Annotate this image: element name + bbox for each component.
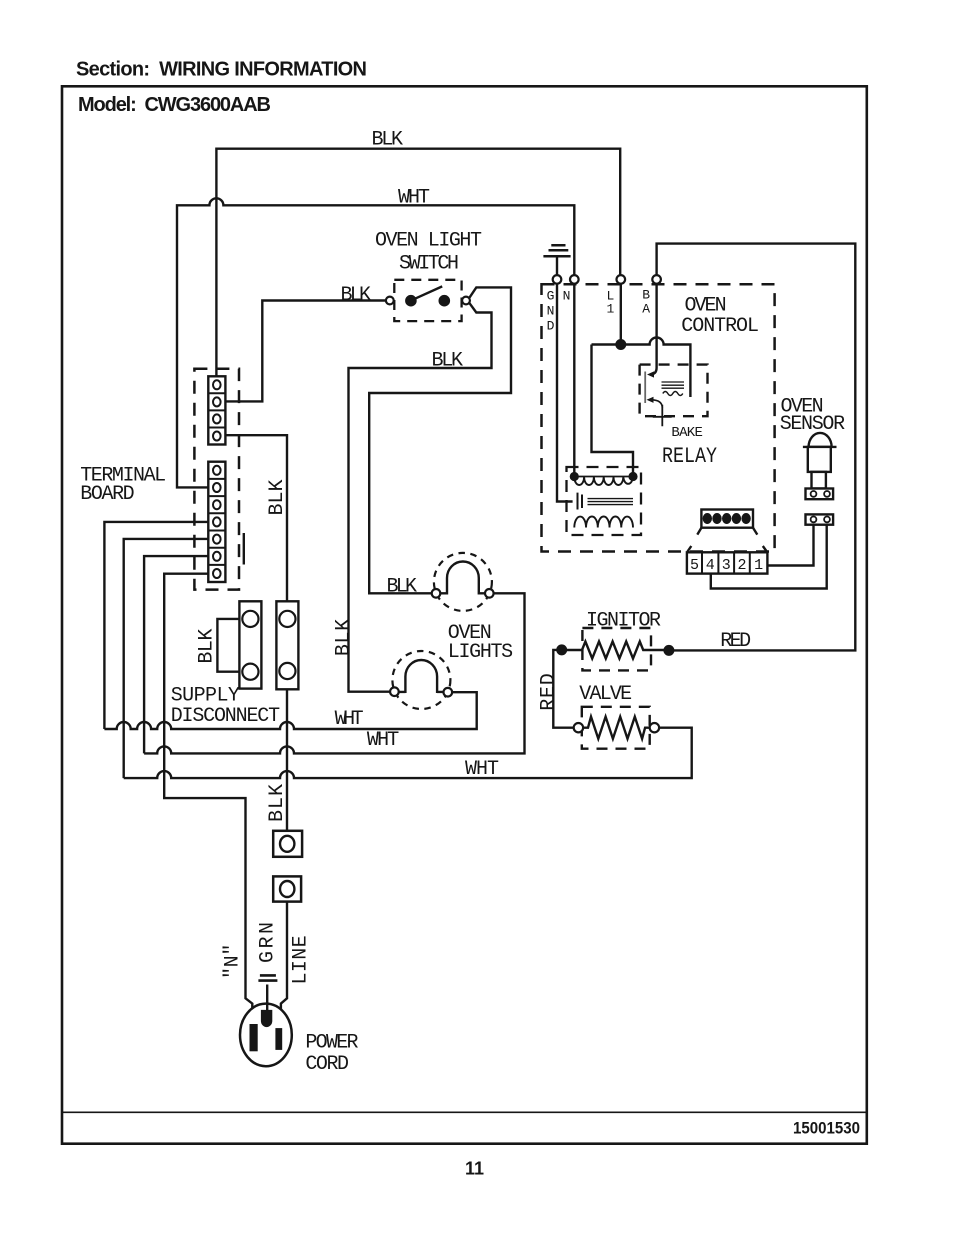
svg-text:2: 2 — [738, 557, 747, 574]
bake relay cross — [653, 405, 672, 426]
svg-text:VALVE: VALVE — [579, 683, 632, 706]
transformer primary line — [574, 476, 633, 478]
svg-text:BLK: BLK — [372, 129, 404, 152]
oven sensor body — [808, 447, 831, 472]
terminal board lower circles — [213, 466, 221, 475]
wire BLK top run to L1 — [216, 149, 620, 377]
bake relay dashed box — [640, 365, 708, 417]
svg-text:BLK: BLK — [387, 576, 418, 599]
terminal strip ticks — [688, 546, 767, 552]
wire WHT 2 run to oven light 1 — [144, 593, 524, 753]
supply disconnect left block — [239, 601, 261, 688]
transformer dashed box — [567, 467, 642, 535]
wire supply disconnect to quick connector — [286, 679, 288, 836]
terminal board dashed box — [194, 369, 239, 590]
GND symbol — [543, 245, 570, 256]
transformer core lines — [588, 499, 634, 505]
power cord line prong — [275, 1028, 282, 1050]
power cord ground pin — [261, 1010, 272, 1027]
svg-text:SENSOR: SENSOR — [780, 413, 845, 436]
svg-text:N: N — [547, 303, 555, 318]
svg-text:4: 4 — [706, 557, 715, 574]
bake relay core bar — [644, 372, 646, 404]
quick connector square 1 — [273, 831, 302, 857]
wire terminal 4 BLK to supply disconnect — [225, 435, 287, 611]
svg-text:N: N — [563, 288, 571, 303]
terminal board upper block — [208, 376, 225, 444]
svg-text:RELAY: RELAY — [662, 444, 717, 469]
wire WHT top run from terminal board to N with hump over BLK — [177, 198, 574, 487]
oven sensor dome — [803, 433, 837, 447]
svg-text:SWITCH: SWITCH — [399, 252, 459, 275]
power cord ground bars — [258, 975, 277, 980]
wire BA into bake relay armature — [650, 284, 657, 375]
svg-text:OVEN LIGHT: OVEN LIGHT — [375, 230, 482, 253]
wire N to transformer primary — [573, 284, 575, 477]
supply disconnect right block — [276, 601, 298, 689]
oven light switch lever — [414, 286, 443, 299]
svg-text:3: 3 — [722, 557, 731, 574]
svg-text:WHT: WHT — [465, 758, 499, 781]
valve dashed box — [582, 707, 650, 749]
oven light switch terminals — [386, 297, 394, 305]
oven sensor connector B — [806, 514, 834, 524]
wire junction bypass to relay with hump over BA — [592, 338, 691, 398]
pin connector legs — [697, 528, 757, 535]
terminal board upper circles — [213, 380, 221, 389]
svg-text:RED: RED — [537, 673, 560, 711]
page frame — [62, 86, 867, 1143]
wire lower terminal 4 down — [104, 522, 208, 729]
wire BA to RED ignitor feed — [657, 244, 856, 651]
svg-text:WHT: WHT — [398, 187, 430, 210]
bake relay coil squiggle — [663, 392, 683, 396]
ignitor junction dots — [557, 646, 566, 655]
valve resistor — [583, 717, 650, 739]
wire switch inner path to oven light 2 — [349, 303, 492, 692]
svg-text:1: 1 — [607, 302, 615, 317]
bake relay plates — [662, 382, 685, 388]
svg-text:LINE: LINE — [289, 935, 312, 984]
svg-text:11: 11 — [465, 1159, 484, 1179]
power cord ground stem GRN — [266, 985, 268, 1011]
svg-text:Model: CWG3600AAB: Model: CWG3600AAB — [78, 94, 271, 116]
svg-text:BOARD: BOARD — [80, 483, 135, 506]
power cord plug — [240, 1004, 292, 1067]
svg-text:BAKE: BAKE — [671, 425, 703, 441]
svg-text:BLK: BLK — [266, 480, 289, 516]
svg-text:IGNITOR: IGNITOR — [586, 610, 661, 633]
svg-text:D: D — [547, 318, 555, 333]
oven control terminals GND N L1 BA — [553, 275, 562, 284]
terminal strip 5 4 3 2 1 — [687, 552, 768, 573]
wire oven sensor pin to strip terminal 1 — [767, 525, 814, 566]
svg-text:WHT: WHT — [367, 729, 399, 752]
wire L1 stub to junction — [620, 284, 622, 345]
svg-text:LIGHTS: LIGHTS — [448, 641, 513, 664]
wire terminal 2 to oven light switch — [225, 301, 386, 402]
svg-text:BLK: BLK — [432, 349, 464, 372]
svg-text:CONTROL: CONTROL — [681, 315, 759, 338]
oven light 2 dashed circle — [392, 651, 450, 709]
oven control dashed box — [542, 284, 775, 551]
svg-text:Section: WIRING INFORMATION: Section: WIRING INFORMATION — [76, 59, 367, 81]
svg-text:A: A — [642, 302, 650, 317]
wire lower terminal 7 to power cord N — [164, 574, 252, 1025]
valve terminals — [574, 723, 583, 732]
svg-text:BLK: BLK — [341, 284, 372, 307]
wire GND to transformer core — [557, 284, 573, 502]
oven light 2 bulb — [399, 660, 444, 693]
wire RED down to valve — [553, 650, 573, 728]
oven light 1 bulb — [440, 562, 485, 595]
svg-text:1: 1 — [754, 557, 763, 574]
transformer core bars — [578, 493, 583, 510]
arrowhead relay armature — [647, 371, 654, 377]
transformer primary coil — [574, 477, 633, 485]
svg-text:G: G — [547, 288, 555, 303]
wire switch outer path to oven light 1 — [369, 287, 511, 593]
stub line beside terminal board — [243, 533, 245, 565]
svg-text:BLK: BLK — [266, 784, 289, 822]
svg-text:SUPPLY: SUPPLY — [171, 684, 240, 707]
ignitor dashed box — [582, 628, 651, 670]
quick connector square 2 — [273, 876, 301, 901]
svg-text:"N": "N" — [221, 944, 244, 979]
svg-text:BLK: BLK — [333, 619, 356, 656]
wire oven sensor pin to strip terminal 4 — [711, 525, 827, 589]
svg-text:15001530: 15001530 — [793, 1119, 860, 1138]
svg-text:WHT: WHT — [335, 708, 364, 731]
wire WHT 1 run with humps — [104, 692, 476, 729]
wire WHT 3 run to valve — [124, 728, 692, 778]
oven light switch dashed box — [394, 280, 461, 321]
wire supply disconnect jumper BLK — [217, 619, 242, 672]
svg-text:GRN: GRN — [257, 922, 280, 963]
L1 junction dot — [617, 340, 626, 349]
svg-text:OVEN: OVEN — [685, 294, 727, 317]
pin connector block — [701, 510, 753, 528]
oven sensor neck — [812, 472, 826, 489]
svg-text:POWER: POWER — [305, 1031, 358, 1054]
transformer secondary coil — [574, 517, 633, 528]
frame bottom strip separator — [62, 1111, 867, 1113]
wire lower terminal 6 down — [144, 556, 208, 753]
power cord neutral prong — [250, 1024, 258, 1051]
terminal board lower block — [208, 462, 225, 582]
ignitor resistor — [566, 642, 669, 659]
svg-text:DISCONNECT: DISCONNECT — [171, 705, 280, 728]
wire lower terminal 5 down — [124, 539, 209, 778]
wire junction to transformer — [592, 345, 634, 474]
bake relay lower armature — [651, 400, 662, 408]
wire GND stem — [556, 256, 558, 275]
oven sensor connector A — [806, 489, 834, 500]
svg-text:5: 5 — [690, 557, 699, 574]
svg-text:CORD: CORD — [305, 1053, 349, 1076]
svg-text:RED: RED — [720, 630, 751, 653]
svg-text:B: B — [642, 287, 650, 302]
transformer primary dots — [571, 473, 578, 480]
svg-text:BLK: BLK — [196, 629, 219, 664]
oven light 1 dashed circle — [434, 553, 492, 611]
wire connector to power cord line — [281, 897, 287, 1029]
